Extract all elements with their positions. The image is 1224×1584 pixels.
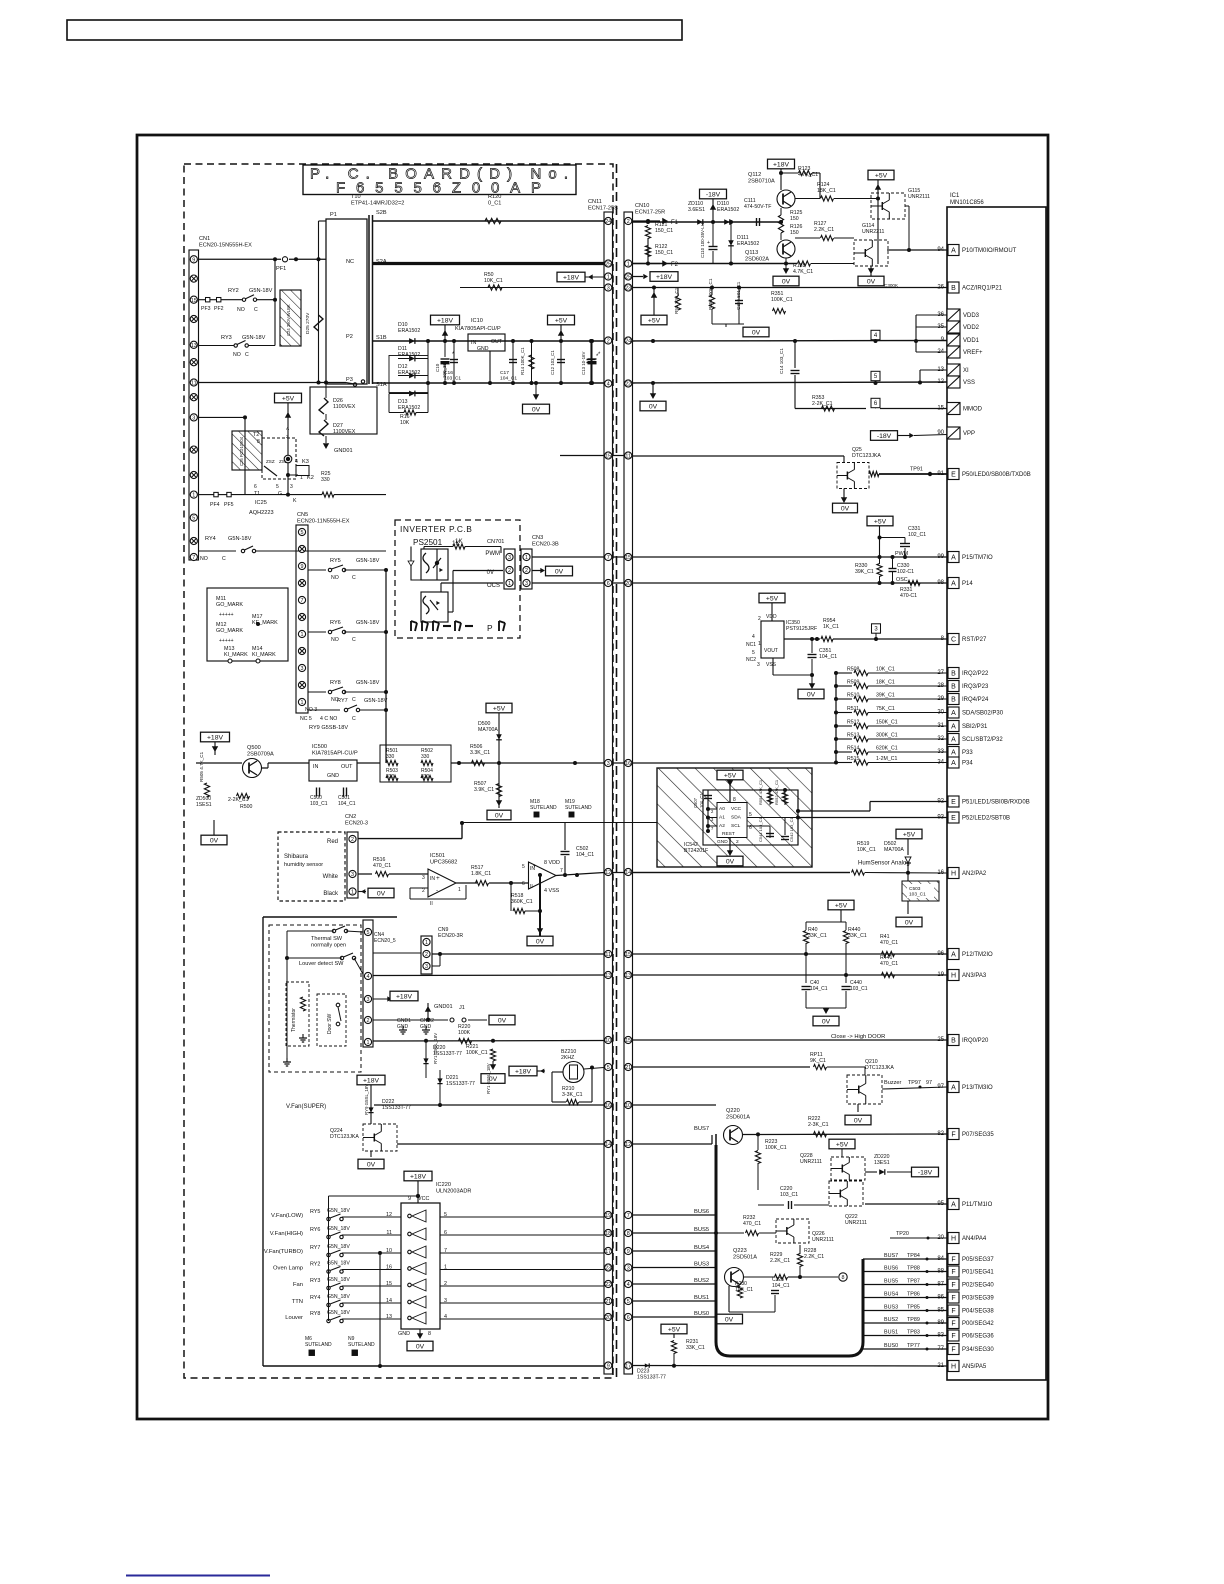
svg-text:P00/SEG42: P00/SEG42 (962, 1321, 994, 1327)
svg-text:MA700A: MA700A (884, 847, 904, 853)
svg-text:ECN20_5: ECN20_5 (374, 938, 396, 944)
svg-text:MN101C856: MN101C856 (950, 200, 984, 206)
svg-text:2KHZ: 2KHZ (561, 1055, 574, 1061)
svg-text:GND: GND (327, 773, 339, 779)
svg-text:A: A (951, 248, 956, 255)
svg-text:IN: IN (471, 340, 476, 346)
svg-text:SUTELAND: SUTELAND (305, 1342, 332, 1348)
svg-text:B: B (951, 697, 956, 704)
svg-text:R505 4.7K_C1: R505 4.7K_C1 (199, 751, 204, 782)
svg-text:150: 150 (790, 216, 799, 222)
svg-text:C17: C17 (500, 370, 509, 376)
svg-text:C: C (951, 637, 956, 644)
svg-text:2.2K_C1: 2.2K_C1 (770, 1258, 790, 1264)
svg-text:22: 22 (625, 382, 631, 388)
svg-text:R511: R511 (847, 706, 859, 712)
svg-text:SUTELAND: SUTELAND (530, 805, 557, 811)
svg-text:3: 3 (508, 555, 511, 561)
svg-text:V.Fan(HIGH): V.Fan(HIGH) (270, 1231, 303, 1237)
svg-text:+18V: +18V (207, 734, 224, 741)
svg-text:10K_C1: 10K_C1 (876, 667, 895, 673)
svg-text:3: 3 (192, 416, 195, 422)
svg-text:UNR2211: UNR2211 (862, 229, 885, 235)
svg-text:NO: NO (331, 575, 339, 581)
svg-text:F: F (951, 1282, 955, 1289)
svg-text:Louver: Louver (285, 1315, 303, 1321)
svg-text:G5N-18V: G5N-18V (356, 680, 380, 686)
svg-text:104_C1: 104_C1 (576, 852, 594, 858)
svg-text:G5N-18V: G5N-18V (356, 558, 380, 564)
svg-text:K2: K2 (307, 475, 314, 481)
svg-text:8: 8 (257, 439, 260, 445)
svg-text:4: 4 (607, 382, 610, 388)
svg-text:IC501: IC501 (430, 853, 445, 859)
svg-text:1: 1 (192, 493, 195, 499)
svg-text:4 C NO: 4 C NO (320, 716, 337, 722)
svg-text:7: 7 (192, 555, 195, 561)
svg-text:H: H (951, 1364, 956, 1371)
svg-text:1: 1 (458, 887, 461, 893)
svg-text:BUS5: BUS5 (694, 1227, 709, 1233)
svg-text:25: 25 (625, 275, 631, 281)
svg-text:9: 9 (627, 1249, 630, 1255)
svg-text:NC2: NC2 (746, 657, 756, 663)
svg-text:3.6ES1: 3.6ES1 (688, 207, 705, 213)
svg-text:C: C (352, 637, 356, 643)
svg-text:VOUT: VOUT (764, 648, 778, 654)
svg-text:UNR2111: UNR2111 (812, 1237, 834, 1243)
svg-text:RY4: RY4 (205, 536, 216, 542)
svg-text:104_C1: 104_C1 (819, 654, 837, 660)
svg-text:9: 9 (192, 257, 195, 263)
svg-text:15: 15 (625, 555, 631, 561)
svg-text:RY6: RY6 (330, 620, 341, 626)
svg-text:1SS133T-77: 1SS133T-77 (637, 1375, 666, 1381)
svg-text:Q220: Q220 (726, 1108, 740, 1114)
svg-text:+5V: +5V (493, 705, 506, 712)
svg-text:P11/TM1IO: P11/TM1IO (962, 1202, 993, 1208)
svg-text:D27: D27 (333, 423, 343, 429)
svg-text:D25 270V: D25 270V (305, 312, 311, 334)
svg-text:104_C1: 104_C1 (772, 1283, 790, 1289)
svg-text:+18V: +18V (656, 274, 673, 281)
svg-text:UNR2111: UNR2111 (845, 1220, 867, 1226)
svg-text:14: 14 (386, 1298, 392, 1304)
svg-text:C10: C10 (435, 363, 440, 372)
svg-text:DTC123JKA: DTC123JKA (865, 1065, 894, 1071)
svg-text:100K_C1: 100K_C1 (466, 1050, 488, 1056)
svg-text:F: F (951, 1269, 955, 1276)
svg-text:13: 13 (605, 973, 611, 979)
svg-text:1.8K_C1: 1.8K_C1 (471, 871, 491, 877)
svg-text:P12/TM2IO: P12/TM2IO (962, 952, 993, 958)
svg-text:TP83: TP83 (907, 1330, 920, 1336)
svg-text:7: 7 (560, 868, 563, 874)
svg-text:33K_C1: 33K_C1 (686, 1345, 705, 1351)
svg-text:3: 3 (422, 875, 425, 881)
svg-text:15: 15 (605, 454, 611, 460)
svg-text:PF1: PF1 (276, 266, 286, 272)
svg-text:UNR2111: UNR2111 (800, 1159, 822, 1165)
svg-text:8: 8 (627, 1231, 630, 1237)
svg-text:300K_C1: 300K_C1 (876, 733, 898, 739)
svg-text:ZSZ: ZSZ (266, 459, 275, 464)
svg-text:24: 24 (605, 219, 611, 225)
svg-text:39K_C1: 39K_C1 (855, 569, 874, 575)
svg-text:P04/SEG38: P04/SEG38 (962, 1309, 994, 1315)
svg-text:UPC35682: UPC35682 (430, 859, 457, 865)
svg-text:S1B: S1B (376, 335, 387, 341)
svg-text:VREF+: VREF+ (963, 350, 983, 356)
svg-text:TP86: TP86 (907, 1292, 920, 1298)
svg-text:G5N_18V: G5N_18V (327, 1294, 350, 1300)
svg-text:R551 47K_C1: R551 47K_C1 (758, 779, 763, 805)
svg-text:18: 18 (605, 1231, 611, 1237)
svg-text:97: 97 (926, 1080, 932, 1086)
svg-text:KIA7805API-CU/P: KIA7805API-CU/P (455, 326, 501, 332)
svg-text:RY7: RY7 (310, 1245, 320, 1251)
svg-text:IC25: IC25 (255, 500, 267, 506)
svg-text:2: 2 (508, 568, 511, 574)
svg-text:GO_MARK: GO_MARK (216, 602, 243, 608)
svg-text:P50/LED0/SB00B/TXD0B: P50/LED0/SB00B/TXD0B (962, 472, 1031, 478)
svg-text:5: 5 (607, 1065, 610, 1071)
svg-text:+5V: +5V (903, 831, 916, 838)
svg-text:+5V: +5V (648, 317, 661, 324)
svg-text:P34/SEG30: P34/SEG30 (962, 1347, 994, 1353)
svg-text:12: 12 (386, 1212, 392, 1218)
svg-text:UNR2111: UNR2111 (908, 194, 930, 200)
svg-text:TP84: TP84 (907, 1253, 920, 1259)
svg-text:103_C1: 103_C1 (444, 376, 461, 382)
svg-text:HumSensor Analog: HumSensor Analog (858, 861, 910, 867)
svg-text:P3: P3 (346, 377, 353, 383)
svg-text:F: F (951, 1333, 955, 1340)
svg-text:1: 1 (425, 940, 428, 946)
svg-text:75K_C1: 75K_C1 (876, 706, 895, 712)
svg-text:TP91: TP91 (910, 467, 923, 473)
svg-text:2: 2 (286, 434, 289, 439)
svg-text:NO: NO (237, 307, 245, 313)
svg-text:TP20: TP20 (896, 1231, 909, 1237)
svg-text:-: - (436, 887, 438, 894)
svg-text:NO: NO (233, 352, 241, 358)
svg-text:9: 9 (607, 1364, 610, 1370)
svg-text:19: 19 (605, 1213, 611, 1219)
svg-text:RY4: RY4 (310, 1295, 320, 1301)
svg-text:II: II (530, 884, 533, 890)
svg-text:0V: 0V (555, 568, 564, 575)
svg-text:C: C (222, 556, 226, 562)
svg-text:RY8: RY8 (330, 680, 341, 686)
svg-text:R513: R513 (847, 733, 860, 739)
svg-text:BUS1: BUS1 (694, 1295, 709, 1301)
svg-text:+18V: +18V (437, 317, 454, 324)
svg-text:5: 5 (301, 530, 304, 536)
svg-text:BUS4: BUS4 (694, 1245, 710, 1251)
svg-text:1: 1 (301, 700, 304, 706)
svg-text:15: 15 (191, 298, 197, 304)
svg-text:10: 10 (625, 1103, 631, 1109)
svg-text:F1: F1 (671, 220, 679, 226)
svg-text:1K_C1: 1K_C1 (823, 624, 839, 630)
svg-text:4: 4 (367, 974, 370, 980)
svg-text:10: 10 (386, 1248, 392, 1254)
svg-text:H: H (951, 871, 956, 878)
svg-text:102_C1: 102_C1 (908, 532, 926, 538)
svg-text:P1: P1 (330, 212, 337, 218)
svg-text:ECN20-15N555H-EX: ECN20-15N555H-EX (199, 242, 252, 248)
svg-text:0V: 0V (532, 406, 541, 413)
svg-text:3: 3 (607, 761, 610, 767)
svg-text:IRQ3/P23: IRQ3/P23 (962, 684, 989, 690)
svg-text:KI_MARK: KI_MARK (224, 652, 248, 658)
svg-text:G5N_18V: G5N_18V (327, 1244, 350, 1250)
svg-text:0V: 0V (807, 691, 816, 698)
svg-text:A: A (951, 1085, 956, 1092)
svg-text:RY3: RY3 (310, 1278, 320, 1284)
svg-text:BUS7: BUS7 (884, 1253, 898, 1259)
svg-text:+: + (533, 864, 537, 870)
svg-text:NO: NO (331, 637, 339, 643)
svg-text:Shibaura: Shibaura (284, 854, 309, 860)
svg-text:2: 2 (758, 616, 761, 622)
svg-text:2: 2 (367, 1018, 370, 1024)
svg-text:3.3K_C1: 3.3K_C1 (470, 750, 490, 756)
svg-text:BUS1: BUS1 (884, 1330, 898, 1336)
svg-text:E: E (951, 815, 956, 822)
svg-text:M14: M14 (252, 646, 263, 652)
svg-text:NC 5: NC 5 (300, 716, 312, 722)
svg-text:2: 2 (425, 952, 428, 958)
svg-text:11: 11 (605, 952, 611, 958)
svg-text:BUS2: BUS2 (694, 1278, 709, 1284)
svg-text:3: 3 (425, 964, 428, 970)
svg-text:6: 6 (522, 881, 525, 887)
svg-text:33K_C1: 33K_C1 (848, 933, 867, 939)
svg-text:1: 1 (607, 275, 610, 281)
svg-text:2SD602A: 2SD602A (745, 256, 769, 262)
svg-text:150_C1: 150_C1 (655, 228, 673, 234)
svg-text:150: 150 (790, 230, 799, 236)
svg-text:ECN17-25S: ECN17-25S (588, 205, 618, 211)
svg-text:+5V: +5V (766, 595, 779, 602)
svg-text:P13/TM3IO: P13/TM3IO (962, 1085, 993, 1091)
svg-text:2: 2 (627, 219, 630, 225)
svg-text:1100VEX: 1100VEX (333, 429, 356, 435)
svg-text:C110 100-35V-LH: C110 100-35V-LH (700, 223, 705, 258)
svg-text:0V: 0V (752, 329, 761, 336)
svg-text:OUT: OUT (491, 339, 503, 345)
svg-text:DTC123JKA: DTC123JKA (852, 453, 881, 459)
svg-text:9K_C1: 9K_C1 (810, 1058, 826, 1064)
svg-text:8: 8 (842, 1275, 845, 1281)
svg-text:A: A (951, 952, 956, 959)
svg-text:VSS: VSS (766, 662, 777, 668)
svg-text:474-50V-TF: 474-50V-TF (744, 204, 771, 210)
svg-text:R500: R500 (240, 804, 253, 810)
svg-text:0V: 0V (854, 1117, 863, 1124)
svg-text:BUS4: BUS4 (884, 1292, 898, 1298)
svg-text:10: 10 (605, 1038, 611, 1044)
svg-text:DTC123JKA: DTC123JKA (330, 1134, 359, 1140)
svg-text:VPP: VPP (963, 431, 975, 437)
svg-text:16: 16 (625, 761, 631, 767)
svg-text:C14 103_C1: C14 103_C1 (779, 348, 784, 374)
svg-text:A: A (951, 750, 956, 757)
svg-text:0V: 0V (367, 1161, 376, 1168)
svg-text:0_C1: 0_C1 (488, 200, 501, 206)
svg-text:150K_C1: 150K_C1 (876, 720, 898, 726)
svg-text:+5V: +5V (724, 772, 737, 779)
svg-text:470_C1: 470_C1 (373, 863, 391, 869)
svg-text:P34: P34 (962, 761, 973, 767)
svg-text:BUS2: BUS2 (884, 1317, 898, 1323)
svg-text:330: 330 (321, 477, 330, 483)
svg-text:BUS0: BUS0 (694, 1311, 709, 1317)
svg-text:+18V: +18V (410, 1173, 427, 1180)
svg-text:D26: D26 (333, 398, 343, 404)
svg-text:P07/SEG35: P07/SEG35 (962, 1132, 994, 1138)
svg-text:BUS6: BUS6 (694, 1209, 709, 1215)
svg-text:P15/TM7IO: P15/TM7IO (962, 555, 993, 561)
svg-text:0V: 0V (210, 837, 219, 844)
svg-text:3: 3 (351, 872, 354, 878)
svg-text:T2: T2 (253, 432, 259, 438)
svg-text:M13: M13 (224, 646, 235, 652)
svg-text:Louver detect SW: Louver detect SW (299, 961, 344, 967)
svg-text:0V: 0V (536, 938, 545, 945)
svg-text:G5N_18V: G5N_18V (327, 1261, 350, 1267)
svg-text:RY3: RY3 (221, 335, 232, 341)
svg-text:R120: R120 (488, 194, 501, 200)
svg-text:RY6: RY6 (310, 1227, 320, 1233)
svg-text:ERA1502: ERA1502 (398, 328, 420, 334)
svg-text:T1: T1 (254, 491, 260, 497)
svg-text:104_C1: 104_C1 (810, 986, 828, 992)
svg-text:0V: 0V (822, 1018, 831, 1025)
svg-text:1: 1 (627, 262, 630, 268)
svg-text:39K_C1: 39K_C1 (876, 693, 895, 699)
svg-text:4: 4 (627, 1282, 630, 1288)
svg-text:2SB0710A: 2SB0710A (748, 178, 775, 184)
svg-text:Q113: Q113 (745, 250, 758, 256)
svg-text:10K_C1: 10K_C1 (857, 847, 876, 853)
svg-text:0V: 0V (841, 505, 850, 512)
svg-text:G5N-18V: G5N-18V (228, 536, 252, 542)
svg-text:TP85: TP85 (907, 1305, 920, 1311)
svg-text:12: 12 (625, 1142, 631, 1148)
svg-text:CN1: CN1 (199, 236, 210, 242)
svg-text:RY9 G5SB-18V: RY9 G5SB-18V (309, 725, 348, 731)
svg-text:A0: A0 (719, 806, 725, 812)
svg-text:SDA/SB02/P30: SDA/SB02/P30 (962, 711, 1004, 717)
svg-text:0V: 0V (905, 919, 914, 926)
svg-text:23: 23 (605, 1266, 611, 1272)
svg-text:15: 15 (625, 952, 631, 958)
svg-text:Buzzer: Buzzer (884, 1080, 902, 1086)
svg-text:ECN17-25R: ECN17-25R (635, 209, 665, 215)
svg-text:G5N_18V: G5N_18V (327, 1226, 350, 1232)
svg-text:P51/LED1/SBI0B/RXD0B: P51/LED1/SBI0B/RXD0B (962, 800, 1030, 806)
svg-text:9: 9 (408, 1196, 411, 1202)
svg-text:+18V: +18V (363, 1077, 380, 1084)
svg-text:P14: P14 (962, 581, 973, 587)
svg-text:P01/SEG41: P01/SEG41 (962, 1270, 994, 1276)
svg-text:P2: P2 (346, 334, 353, 340)
svg-text:C: C (352, 697, 356, 703)
svg-text:IC10: IC10 (471, 318, 483, 324)
svg-text:J1: J1 (459, 1005, 465, 1011)
svg-text:21: 21 (625, 1065, 631, 1071)
svg-text:F: F (951, 1132, 955, 1139)
svg-text:BUS3: BUS3 (884, 1305, 898, 1311)
svg-text:0V: 0V (416, 1343, 425, 1350)
svg-text:PF2: PF2 (214, 306, 224, 312)
svg-text:II: II (430, 901, 433, 907)
svg-text:1: 1 (508, 581, 511, 587)
svg-text:C24 250V-WLBK: C24 250V-WLBK (286, 304, 291, 336)
svg-text:P02/SEG40: P02/SEG40 (962, 1283, 994, 1289)
svg-text:F: F (951, 1295, 955, 1302)
svg-text:2SB0709A: 2SB0709A (247, 751, 274, 757)
svg-text:R14 100K_C1: R14 100K_C1 (520, 347, 525, 375)
svg-text:P06/SEG36: P06/SEG36 (962, 1334, 994, 1340)
svg-text:17: 17 (625, 1364, 631, 1370)
svg-text:F: F (951, 1308, 955, 1315)
svg-text:GND: GND (398, 1331, 410, 1337)
svg-text:1: 1 (758, 641, 761, 647)
svg-text:Red: Red (327, 839, 338, 845)
svg-text:11: 11 (191, 381, 197, 387)
svg-text:ULN2003ADR: ULN2003ADR (436, 1188, 471, 1194)
svg-text:G5N_18V: G5N_18V (327, 1277, 350, 1283)
svg-text:K: K (293, 498, 297, 504)
svg-text:R515: R515 (847, 756, 860, 762)
svg-text:BT24201F: BT24201F (684, 848, 708, 854)
svg-text:P10/TM0IO/RMOUT: P10/TM0IO/RMOUT (962, 248, 1017, 254)
svg-text:AN5/PA5: AN5/PA5 (962, 1364, 987, 1370)
svg-text:13: 13 (625, 973, 631, 979)
svg-text:-18V: -18V (877, 433, 892, 440)
svg-text:104_C1: 104_C1 (338, 801, 356, 807)
svg-text:NC: NC (346, 259, 354, 265)
svg-text:25: 25 (605, 262, 611, 268)
svg-text:G5N-18V: G5N-18V (242, 335, 266, 341)
svg-text:TP88: TP88 (907, 1266, 920, 1272)
svg-text:13: 13 (191, 343, 197, 349)
svg-text:0V: 0V (498, 1017, 507, 1024)
svg-text:C503: C503 (909, 886, 921, 892)
svg-text:ETP41-14MRJD32=2: ETP41-14MRJD32=2 (351, 200, 404, 206)
svg-text:23: 23 (625, 286, 631, 292)
svg-text:A: A (951, 710, 956, 717)
svg-text:9: 9 (301, 564, 304, 570)
svg-text:INVERTER P.C.B: INVERTER P.C.B (400, 524, 472, 534)
svg-text:12: 12 (605, 870, 611, 876)
svg-text:4: 4 (752, 634, 755, 640)
svg-text:MMOD: MMOD (963, 407, 983, 413)
svg-text:+++++: +++++ (219, 612, 234, 618)
svg-text:6: 6 (254, 484, 257, 490)
svg-text:TP87: TP87 (907, 1279, 920, 1285)
svg-text:RY5: RY5 (310, 1209, 320, 1215)
svg-text:B: B (951, 285, 956, 292)
svg-text:3: 3 (290, 484, 293, 490)
svg-text:2SD601A: 2SD601A (726, 1114, 750, 1120)
svg-text:Thermistor: Thermistor (291, 1008, 297, 1032)
svg-text:PWM: PWM (485, 551, 500, 557)
